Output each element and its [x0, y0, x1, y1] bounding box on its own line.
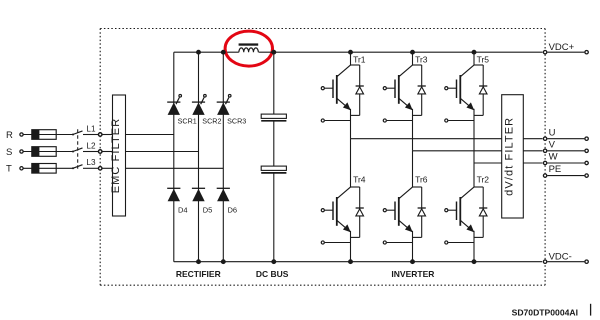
- contactor blade R: [72, 131, 83, 136]
- svg-text:DC BUS: DC BUS: [256, 269, 289, 279]
- svg-text:Tr3: Tr3: [415, 55, 428, 65]
- svg-text:RECTIFIER: RECTIFIER: [176, 269, 221, 279]
- svg-text:D5: D5: [203, 205, 213, 214]
- svg-text:L2: L2: [86, 141, 96, 150]
- terminal W external: [585, 161, 588, 164]
- terminal VDC- external: [585, 260, 588, 263]
- wire VDC- to external terminal: [547, 261, 584, 263]
- junction on DC+ bus x=412.5: [410, 50, 415, 55]
- wire L1 to EMC filter: [102, 134, 113, 136]
- transistor Tr4 (IGBT with freewheel diode): [321, 139, 366, 262]
- terminal U external: [585, 137, 588, 140]
- svg-text:VDC+: VDC+: [549, 42, 575, 53]
- transistor Tr2 (IGBT with freewheel diode): [445, 163, 490, 262]
- inductor DC choke: [239, 43, 259, 52]
- diode D6: [217, 188, 237, 214]
- wire rectifier leg R vertical: [173, 52, 175, 262]
- node VDC- on enclosure border: [543, 252, 571, 264]
- svg-text:L1: L1: [86, 124, 96, 133]
- svg-text:S: S: [6, 147, 12, 158]
- wire DC- bus: [174, 261, 542, 263]
- wire dV/dt filter to V node: [523, 150, 542, 152]
- svg-text:dV/dt FILTER: dV/dt FILTER: [504, 117, 516, 196]
- wire W to external terminal: [547, 162, 584, 164]
- wire VDC+ to external terminal: [547, 51, 584, 53]
- wire contactor to L3: [83, 167, 98, 169]
- wire DC+ bus (left of choke): [174, 51, 239, 53]
- wire V to external terminal: [547, 150, 584, 152]
- terminal R: [6, 130, 23, 141]
- junction on DC+ bus x=223.3: [221, 50, 226, 55]
- junction on DC- bus x=223.3: [221, 259, 226, 264]
- svg-text:Tr2: Tr2: [477, 175, 490, 185]
- transistor Tr1 (IGBT with freewheel diode): [321, 52, 366, 139]
- wire DC+ bus (right of choke): [259, 51, 543, 53]
- diode D5: [192, 188, 212, 214]
- fuse F2: [32, 147, 56, 157]
- transistor Tr3 (IGBT with freewheel diode): [383, 52, 428, 151]
- svg-text:D4: D4: [178, 205, 188, 214]
- svg-text:Tr1: Tr1: [353, 55, 366, 65]
- contactor mechanical link (dashed): [77, 129, 79, 169]
- svg-text:INVERTER: INVERTER: [391, 269, 434, 279]
- thyristor SCR2: [192, 95, 222, 126]
- diode D4: [167, 188, 187, 214]
- wire rectifier leg S vertical: [198, 52, 200, 262]
- terminal T: [6, 164, 23, 175]
- node VDC+ on enclosure border: [543, 42, 574, 54]
- node PE on enclosure border: [543, 164, 561, 177]
- wire S terminal through fuse to contactor: [23, 151, 73, 153]
- dashed enclosure border top: [100, 28, 545, 30]
- svg-text:R: R: [6, 130, 13, 141]
- svg-text:T: T: [6, 164, 12, 175]
- wire between capacitors: [273, 121, 275, 166]
- junction on DC+ bus x=198.5: [196, 50, 201, 55]
- terminal VDC+ external: [585, 51, 588, 54]
- svg-text:SCR1: SCR1: [178, 116, 197, 125]
- node L1: [86, 124, 102, 136]
- transistor Tr5 (IGBT with freewheel diode): [445, 52, 490, 163]
- node V on enclosure border: [543, 139, 555, 152]
- fuse F1: [32, 130, 56, 140]
- svg-text:D6: D6: [228, 205, 238, 214]
- dashed enclosure border right: [544, 29, 546, 286]
- svg-text:Tr4: Tr4: [353, 175, 366, 185]
- svg-text:V: V: [549, 139, 556, 150]
- terminal V external: [585, 149, 588, 152]
- junction on DC- bus x=412.5: [410, 259, 415, 264]
- capacitor C2: [261, 166, 286, 173]
- wire phase W to dV/dt filter: [474, 162, 502, 164]
- svg-text:Tr5: Tr5: [477, 55, 490, 65]
- svg-text:SCR2: SCR2: [202, 116, 221, 125]
- EMC filter box: [110, 95, 126, 216]
- wire EMC filter to rectifier leg S: [126, 151, 199, 153]
- wire capacitor leg top: [273, 52, 275, 114]
- wire dV/dt filter to W node: [523, 162, 542, 164]
- junction on DC- bus x=198.5: [196, 259, 201, 264]
- svg-text:Tr6: Tr6: [415, 175, 428, 185]
- wire EMC filter to rectifier leg R: [126, 134, 174, 136]
- junction on DC- bus x=350.5: [348, 259, 353, 264]
- node L3: [86, 158, 102, 170]
- node L2: [86, 141, 102, 153]
- terminal S: [6, 147, 23, 158]
- wire R terminal through fuse to contactor: [23, 134, 73, 136]
- wire T terminal through fuse to contactor: [23, 167, 73, 169]
- svg-text:SCR3: SCR3: [227, 116, 246, 125]
- terminal PE external: [585, 174, 588, 177]
- red highlight ellipse around choke: [225, 31, 272, 66]
- thyristor SCR1: [167, 95, 197, 126]
- wire contactor to L1: [83, 134, 98, 136]
- wire rectifier leg T vertical: [222, 52, 224, 262]
- wire L2 to EMC filter: [102, 151, 113, 153]
- junction on DC+ bus x=273.8: [271, 50, 276, 55]
- wire U to external terminal: [547, 138, 584, 140]
- wire dV/dt filter to U node: [523, 138, 542, 140]
- label drawing number SD70DTP0004AI: [512, 304, 591, 318]
- dashed enclosure border left: [99, 29, 101, 286]
- wire contactor to L2: [83, 151, 98, 153]
- transistor Tr6 (IGBT with freewheel diode): [383, 151, 428, 262]
- thyristor SCR3: [217, 95, 247, 126]
- junction on DC- bus x=273.8: [271, 259, 276, 264]
- wire capacitor leg bottom: [273, 173, 275, 262]
- node W on enclosure border: [543, 152, 557, 165]
- fuse F3: [32, 164, 56, 174]
- junction on DC- bus x=474: [472, 259, 477, 264]
- contactor blade S: [72, 148, 83, 153]
- contactor blade T: [72, 165, 83, 170]
- wire phase U to dV/dt filter: [351, 138, 502, 140]
- svg-text:EMC FILTER: EMC FILTER: [110, 118, 122, 194]
- svg-text:W: W: [549, 152, 558, 163]
- dV/dt filter box: [502, 95, 524, 218]
- wire PE to external terminal: [547, 175, 584, 177]
- svg-text:U: U: [549, 127, 556, 138]
- node U on enclosure border: [543, 127, 555, 140]
- wire phase V to dV/dt filter: [413, 150, 502, 152]
- svg-text:L3: L3: [86, 158, 96, 167]
- svg-text:VDC-: VDC-: [549, 252, 572, 263]
- junction on DC+ bus x=474: [472, 50, 477, 55]
- svg-text:PE: PE: [549, 164, 562, 175]
- capacitor C1: [261, 114, 286, 121]
- dashed enclosure border bottom: [100, 284, 545, 286]
- svg-text:SD70DTP0004AI: SD70DTP0004AI: [512, 307, 578, 317]
- wire L3 to EMC filter: [102, 167, 113, 169]
- wire EMC filter to rectifier leg T: [126, 167, 224, 169]
- junction on DC+ bus x=350.5: [348, 50, 353, 55]
